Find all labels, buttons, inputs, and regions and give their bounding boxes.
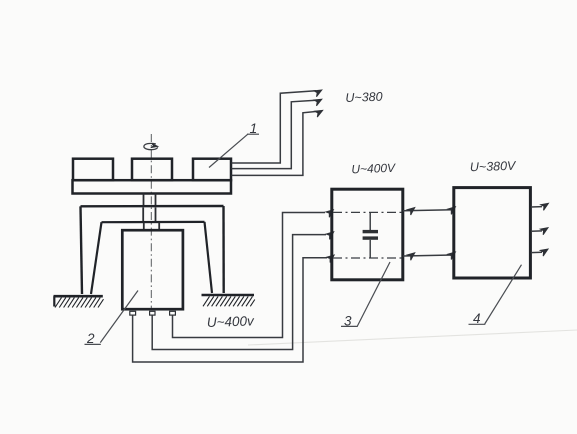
wire: top feed C (232, 111, 318, 175)
leader 2 (100, 291, 138, 343)
svg-text:2: 2 (86, 331, 95, 346)
output box U4 (454, 188, 531, 278)
motor terminal t2 (150, 311, 155, 315)
component 1: right pole block (193, 159, 231, 181)
wire: box4 output 1 (531, 206, 542, 208)
shaft neck B (142, 208, 144, 222)
ground pad right (202, 295, 255, 306)
shaft neck C (143, 223, 145, 231)
svg-text:3: 3 (344, 313, 352, 328)
motor terminal t1 (130, 311, 136, 315)
shaft neck A (143, 194, 145, 207)
centerline (axis of rotation) (150, 134, 152, 310)
capacitor C plate 1 (363, 230, 378, 233)
wire: top feed B (232, 100, 317, 168)
wire: motor t3 to converter input 1 (173, 213, 326, 338)
outer frame top (81, 205, 224, 208)
capacitor C lead bottom (369, 240, 371, 258)
capacitor C lead top (369, 212, 371, 230)
leader 1 (209, 134, 248, 167)
wire: box4 output 3 (531, 251, 542, 253)
wire: converter to box4 link 1 (403, 210, 453, 211)
converter internal bus bottom (dash-dot) (333, 257, 402, 259)
wire: box4 output 2 (531, 230, 542, 232)
svg-text:U~400v: U~400v (207, 313, 256, 330)
svg-text:U~400V: U~400V (351, 161, 396, 177)
wire: motor t1 to converter input 3 (133, 258, 327, 362)
wire: top feed A (component1 to supply) (232, 91, 317, 163)
wire: converter to box4 link 2 (403, 255, 453, 256)
inner frame right leg (205, 222, 213, 293)
converter internal bus top (dash-dot) (333, 211, 402, 213)
svg-text:U~380: U~380 (345, 90, 383, 105)
converter box U3 (332, 189, 403, 280)
wire: motor t2 to converter input 2 (152, 235, 326, 350)
rotation arrow symbol (144, 143, 158, 149)
inner frame top (102, 221, 205, 224)
svg-text:4: 4 (473, 311, 481, 326)
svg-text:1: 1 (250, 120, 258, 136)
component 1: middle pole block (132, 159, 172, 181)
leader 3 (357, 262, 390, 326)
svg-text:U~380V: U~380V (470, 159, 518, 175)
motor M (component 2) body (122, 230, 183, 309)
outer frame left leg (81, 206, 83, 294)
component 1: table bar (73, 180, 232, 193)
ground pad left (54, 296, 104, 307)
component 1: left pole block (73, 159, 113, 181)
faint scan crease line (248, 330, 577, 345)
outer frame right leg (222, 206, 225, 293)
leader 4 (485, 265, 522, 324)
motor terminal t3 (170, 311, 176, 315)
inner frame left leg (91, 222, 102, 294)
capacitor C plate 2 (363, 236, 378, 239)
